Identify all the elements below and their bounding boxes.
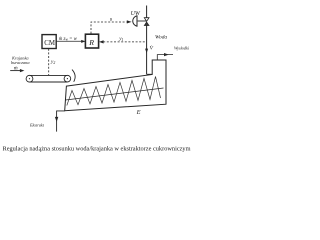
- left pulley: [26, 75, 33, 82]
- water pipe upper segment: [146, 6, 148, 18]
- screw shaft: [66, 88, 164, 100]
- svg-text:Wysłodki: Wysłodki: [174, 45, 190, 50]
- svg-text:E: E: [136, 109, 141, 116]
- water pipe lower segment with flow arrow: [145, 25, 152, 74]
- actuator UW (diaphragm, half-disc): [133, 16, 147, 26]
- screw flights (zigzag): [67, 77, 161, 106]
- control wire R to actuator (dashed, with corner): [91, 20, 132, 33]
- svg-text:y2: y2: [50, 59, 55, 65]
- feed arrow m (mass flow of cossettes): [10, 65, 24, 72]
- svg-text:R: R: [88, 38, 94, 47]
- pulp outlet pipe with arrow: [157, 53, 173, 60]
- sensor block CM: [42, 35, 56, 49]
- belt conveyor: [26, 70, 75, 83]
- svg-text:Woda: Woda: [155, 35, 167, 41]
- svg-text:ṁ zw = w: ṁ zw = w: [59, 37, 78, 42]
- control valve (bowtie on vertical pipe): [144, 18, 149, 26]
- svg-text:CM: CM: [44, 40, 55, 47]
- feedback wire y1 (flow measurement to R, dashed): [99, 40, 146, 43]
- svg-text:Regulacja nadążna stosunku wod: Regulacja nadążna stosunku woda/krajanka…: [3, 145, 191, 152]
- right pulley: [64, 75, 71, 82]
- regulator R: [85, 34, 98, 48]
- labels Krajanka buraczana: [11, 55, 30, 65]
- extractor housing E: [65, 60, 166, 111]
- svg-text:y1: y1: [118, 36, 123, 42]
- discharge guide arc: [72, 70, 75, 82]
- juice outlet (extract) with arrow: [55, 111, 65, 132]
- svg-text:V̇: V̇: [150, 45, 154, 52]
- svg-text:Ekstrakt: Ekstrakt: [29, 122, 45, 127]
- measurement wire y2 (belt scale to CM, dashed): [48, 49, 50, 75]
- wire CM to R (setpoint): [57, 40, 86, 43]
